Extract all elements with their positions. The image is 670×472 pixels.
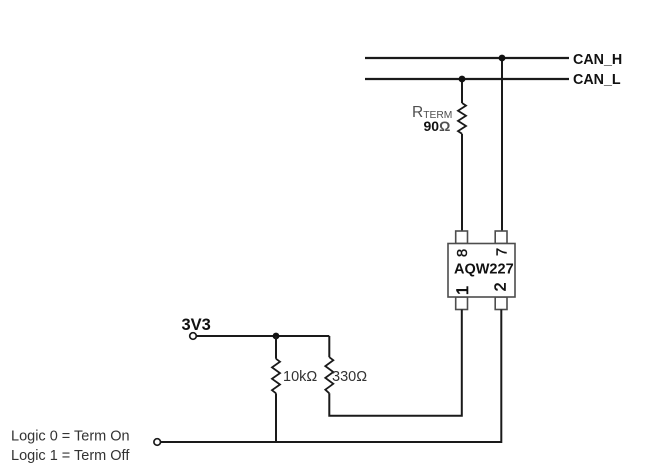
svg-text:2: 2 bbox=[493, 282, 510, 291]
svg-text:7: 7 bbox=[494, 248, 511, 256]
svg-text:CAN_L: CAN_L bbox=[573, 72, 621, 88]
svg-text:8: 8 bbox=[454, 249, 471, 257]
svg-text:3V3: 3V3 bbox=[182, 316, 211, 334]
svg-text:1: 1 bbox=[453, 286, 472, 295]
svg-text:Logic 0 = Term On: Logic 0 = Term On bbox=[11, 429, 130, 445]
svg-text:CAN_H: CAN_H bbox=[573, 52, 622, 68]
svg-text:90Ω: 90Ω bbox=[424, 118, 451, 134]
svg-text:Logic 1 = Term Off: Logic 1 = Term Off bbox=[11, 448, 130, 464]
svg-text:10kΩ: 10kΩ bbox=[283, 369, 317, 385]
svg-text:330Ω: 330Ω bbox=[332, 369, 367, 385]
svg-text:AQW227: AQW227 bbox=[454, 261, 514, 277]
